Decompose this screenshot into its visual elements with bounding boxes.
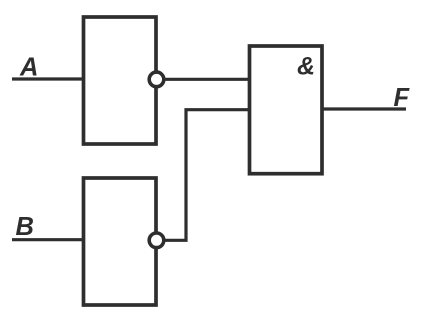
inverter U2 body (84, 178, 157, 305)
inversion bubble on U2 output (149, 233, 164, 248)
inversion bubble on U1 output (149, 72, 164, 87)
wire B input (12, 238, 85, 241)
svg-text:A: A (19, 54, 38, 82)
wire U1 output to AND gate upper input (163, 78, 251, 81)
svg-text:&: & (297, 53, 315, 81)
AND gate U3 body (250, 46, 323, 174)
wire U2 output riser to AND gate lower input (163, 110, 251, 241)
svg-text:F: F (394, 84, 411, 112)
inverter U1 body (84, 17, 157, 144)
svg-text:B: B (16, 213, 34, 241)
wire AND output (322, 107, 406, 110)
wire A input (12, 77, 85, 80)
